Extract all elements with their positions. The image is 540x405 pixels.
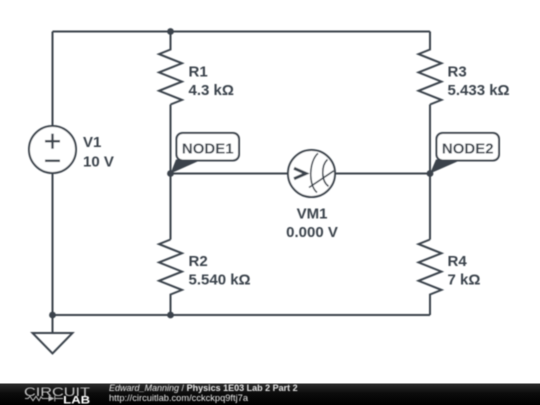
wire right branch R3 to NODE2 xyxy=(429,105,431,174)
voltage source V1 xyxy=(29,126,114,173)
junction dot ground xyxy=(49,312,56,319)
svg-text:R3: R3 xyxy=(448,64,467,81)
node NODE2 label xyxy=(430,133,499,174)
wire top horizontal xyxy=(53,31,431,33)
wire middle horizontal VM1 to NODE2 xyxy=(335,173,430,175)
svg-text:5.540 kΩ: 5.540 kΩ xyxy=(189,272,251,289)
svg-text:R4: R4 xyxy=(448,253,468,270)
svg-text:http://circuitlab.com/cckckpq9: http://circuitlab.com/cckckpq9ftj7a xyxy=(109,393,249,403)
wire left vertical lower xyxy=(52,173,54,315)
resistor R3 xyxy=(419,32,510,105)
voltmeter VM1 xyxy=(286,150,338,241)
svg-text:7 kΩ: 7 kΩ xyxy=(448,272,481,289)
resistor R2 xyxy=(159,240,251,316)
footer bar xyxy=(0,384,540,405)
svg-text:0.000 V: 0.000 V xyxy=(286,224,338,241)
wire left vertical upper xyxy=(52,32,54,127)
svg-text:V1: V1 xyxy=(83,134,101,151)
svg-text:LAB: LAB xyxy=(63,394,90,405)
svg-text:Edward_Manning / Physics 1E03: Edward_Manning / Physics 1E03 Lab 2 Part… xyxy=(109,383,298,393)
wire middle horizontal NODE1 to VM1 xyxy=(171,173,289,175)
node NODE1 label xyxy=(171,133,240,174)
svg-text:NODE2: NODE2 xyxy=(442,141,494,158)
svg-text:VM1: VM1 xyxy=(297,206,328,223)
wire middle branch R1 to NODE1 xyxy=(170,105,172,174)
CircuitLab logo resistor-diode graphic xyxy=(25,396,63,402)
junction dot NODE2 xyxy=(427,170,434,177)
wire right branch NODE2 to R4 xyxy=(429,174,431,240)
ground xyxy=(33,315,73,354)
svg-text:5.433 kΩ: 5.433 kΩ xyxy=(448,82,510,99)
svg-text:4.3 kΩ: 4.3 kΩ xyxy=(189,82,234,99)
wire bottom horizontal xyxy=(53,314,431,316)
junction dot NODE1 xyxy=(167,170,174,177)
svg-text:NODE1: NODE1 xyxy=(182,141,234,158)
svg-text:R2: R2 xyxy=(189,253,208,270)
junction dot top xyxy=(167,28,174,35)
junction dot bottom middle xyxy=(167,312,174,319)
wire middle branch NODE1 to R2 xyxy=(170,174,172,240)
resistor R4 xyxy=(419,240,481,316)
svg-text:10 V: 10 V xyxy=(83,154,114,171)
svg-text:R1: R1 xyxy=(189,64,208,81)
resistor R1 xyxy=(159,32,234,105)
